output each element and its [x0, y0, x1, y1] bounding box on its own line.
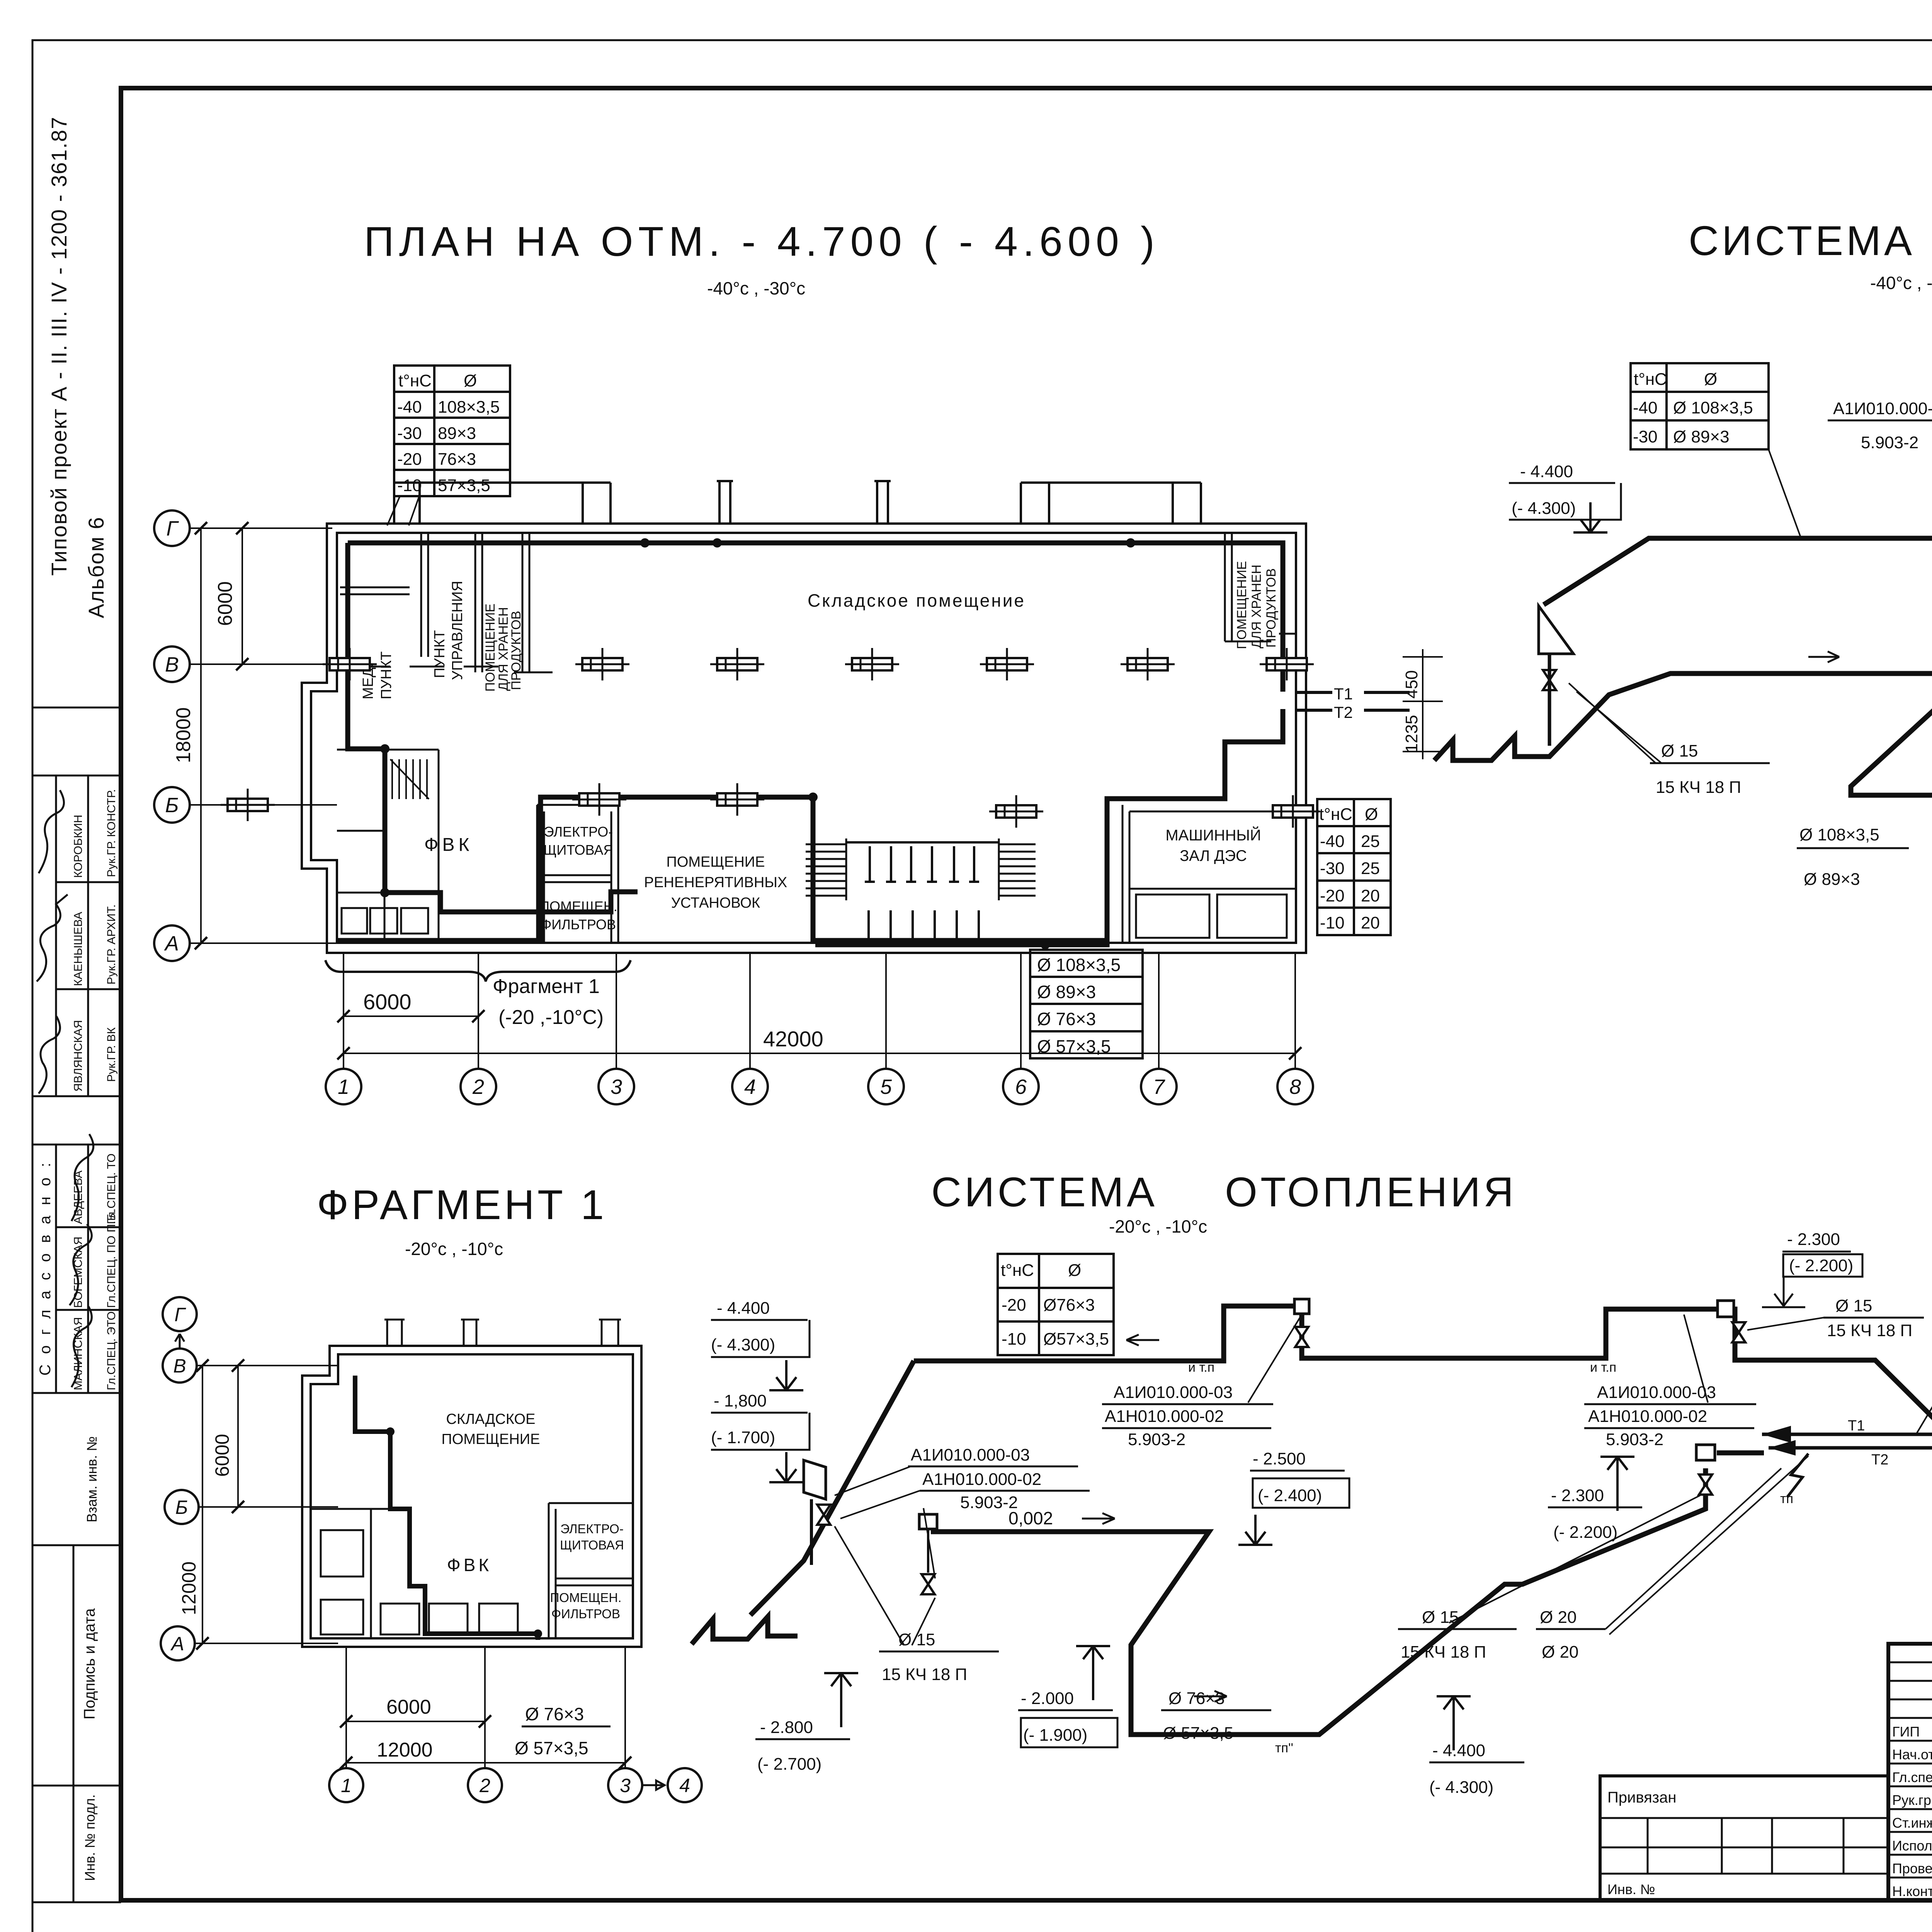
svg-text:КАЕНЫШЕВА: КАЕНЫШЕВА — [72, 912, 85, 986]
svg-text:12000: 12000 — [377, 1739, 433, 1761]
svg-text:(- 4.300): (- 4.300) — [1429, 1778, 1493, 1797]
svg-text:2: 2 — [472, 1075, 484, 1099]
svg-text:Г: Г — [166, 517, 179, 540]
stamp column grid — [32, 707, 121, 1902]
svg-text:Ø 57×3,5: Ø 57×3,5 — [1163, 1724, 1233, 1743]
svg-text:Т1: Т1 — [1334, 685, 1353, 703]
stair railing posts row2 — [864, 910, 984, 946]
svg-text:Ø 89×3: Ø 89×3 — [1037, 982, 1096, 1002]
svg-text:ЯВЛЯНСКАЯ: ЯВЛЯНСКАЯ — [72, 1020, 85, 1092]
svg-text:Гл.СПЕЦ. ЭТО: Гл.СПЕЦ. ЭТО — [105, 1311, 118, 1390]
break zigzag — [1787, 1454, 1808, 1497]
svg-text:5.903-2: 5.903-2 — [1861, 433, 1918, 452]
svg-text:Нач.отд.: Нач.отд. — [1892, 1747, 1932, 1762]
svg-text:450: 450 — [1402, 670, 1421, 699]
svg-text:-20°с , -10°с: -20°с , -10°с — [1109, 1216, 1207, 1236]
svg-text:5: 5 — [880, 1075, 892, 1099]
svg-text:Ø 15: Ø 15 — [898, 1630, 935, 1649]
svg-text:УПРАВЛЕНИЯ: УПРАВЛЕНИЯ — [449, 581, 466, 680]
svg-text:Инв. № подл.: Инв. № подл. — [82, 1794, 98, 1881]
svg-text:Ø 108×3,5: Ø 108×3,5 — [1037, 955, 1121, 975]
svg-text:15 КЧ 18 П: 15 КЧ 18 П — [882, 1665, 967, 1684]
svg-text:25: 25 — [1361, 832, 1380, 851]
TOP-PLAN — [154, 218, 1443, 1104]
svg-text:ПОМЕЩЕНИЕ: ПОМЕЩЕНИЕ — [442, 1431, 540, 1447]
stair railing posts row1 — [846, 842, 999, 882]
BOTTOM-SCHEMATIC — [692, 1168, 1932, 1797]
svg-text:-30: -30 — [1320, 859, 1345, 878]
svg-text:42000: 42000 — [763, 1027, 823, 1051]
privyazan box — [1600, 1776, 1888, 1900]
svg-text:4: 4 — [744, 1075, 756, 1099]
window marks above — [384, 1320, 621, 1346]
svg-text:ПОМЕЩЕНИЕ: ПОМЕЩЕНИЕ — [483, 604, 498, 692]
left extension lines and dims — [190, 528, 337, 943]
svg-text:Типовой проект А - II. III: Типовой проект А - II. III. IV - 1200 - … — [47, 116, 71, 576]
svg-text:А: А — [170, 1633, 184, 1655]
svg-text:и т.п: и т.п — [1590, 1360, 1616, 1375]
svg-text:Рук.ГР. КОНСТР.: Рук.ГР. КОНСТР. — [105, 789, 118, 877]
svg-text:2: 2 — [479, 1775, 490, 1796]
svg-text:Ø 15: Ø 15 — [1835, 1296, 1872, 1315]
svg-text:Ø 15: Ø 15 — [1661, 742, 1698, 760]
main pipe runs — [692, 1306, 1932, 1735]
svg-text:Складское помещение: Складское помещение — [808, 590, 1026, 611]
svg-text:Ø 76×3: Ø 76×3 — [525, 1704, 584, 1724]
svg-text:(- 2.200): (- 2.200) — [1553, 1523, 1617, 1542]
fragment bottom dims — [346, 1647, 625, 1768]
svg-text:1235: 1235 — [1402, 715, 1421, 753]
svg-text:Ø 108×3,5: Ø 108×3,5 — [1673, 398, 1753, 417]
svg-text:-20: -20 — [1002, 1296, 1026, 1315]
svg-text:18000: 18000 — [172, 707, 195, 763]
svg-text:А1И010.000-03: А1И010.000-03 — [1597, 1383, 1716, 1402]
svg-text:ДЛЯ ХРАНЕН: ДЛЯ ХРАНЕН — [1249, 565, 1264, 648]
interior partitions top band — [339, 533, 1296, 672]
svg-text:t°нС: t°нС — [1001, 1261, 1034, 1280]
table T2 right — [1317, 799, 1391, 935]
boxes on pipe — [1294, 1299, 1309, 1314]
bottom window rects left — [342, 908, 428, 934]
svg-text:А1Н010.000-02: А1Н010.000-02 — [1588, 1407, 1707, 1426]
main pipe upper run — [1434, 483, 1932, 827]
table T5 — [998, 1254, 1114, 1355]
LEFT-MARGIN-STAMP — [32, 116, 121, 1902]
valve left — [1543, 670, 1556, 690]
svg-text:8: 8 — [1289, 1075, 1301, 1099]
svg-text:А: А — [164, 932, 179, 955]
svg-text:25: 25 — [1361, 859, 1380, 878]
svg-text:СКЛАДСКОЕ: СКЛАДСКОЕ — [446, 1411, 536, 1427]
svg-text:-40: -40 — [397, 398, 422, 417]
signature squiggles — [37, 790, 94, 1387]
svg-text:ПУНКТ: ПУНКТ — [432, 630, 448, 678]
fragment heating pipe — [355, 1376, 538, 1640]
left axis circles — [154, 510, 190, 961]
svg-text:6000: 6000 — [214, 581, 236, 626]
svg-text:t°нС: t°нС — [1634, 370, 1667, 389]
svg-text:-40: -40 — [1633, 398, 1658, 417]
svg-text:(-20 ,-10°С): (-20 ,-10°С) — [498, 1006, 604, 1029]
svg-text:Привязан: Привязан — [1607, 1789, 1676, 1806]
svg-text:Ø: Ø — [1704, 370, 1717, 389]
svg-text:Г: Г — [174, 1304, 186, 1325]
bottom window rects right — [1136, 895, 1287, 938]
svg-text:Ø76×3: Ø76×3 — [1043, 1296, 1095, 1315]
fragment outer walls — [302, 1346, 641, 1647]
svg-text:- 2.800: - 2.800 — [760, 1718, 813, 1737]
svg-text:12000: 12000 — [178, 1561, 200, 1615]
svg-text:Альбом 6: Альбом 6 — [84, 516, 108, 618]
svg-text:5.903-2: 5.903-2 — [1128, 1430, 1185, 1449]
top right store room — [1224, 533, 1226, 641]
fragment room labels — [442, 1411, 624, 1621]
svg-text:КОРОБКИН: КОРОБКИН — [72, 815, 85, 878]
svg-text:-20: -20 — [397, 450, 422, 469]
left grid — [1888, 1644, 1932, 1900]
svg-text:(- 2.200): (- 2.200) — [1789, 1256, 1853, 1275]
svg-text:20: 20 — [1361, 913, 1380, 932]
TOP-SCHEMATIC — [1434, 217, 1932, 960]
svg-text:t°нС: t°нС — [1319, 805, 1352, 824]
small stair near left wall — [390, 759, 429, 799]
svg-text:ФРАГМЕНТ 1: ФРАГМЕНТ 1 — [317, 1181, 607, 1228]
elevation -4.400 left — [1512, 462, 1576, 518]
svg-text:- 4.400: - 4.400 — [717, 1299, 770, 1318]
svg-text:Взам. инв. №: Взам. инв. № — [84, 1436, 100, 1522]
svg-text:15 КЧ 18 П: 15 КЧ 18 П — [1401, 1643, 1486, 1662]
svg-text:Т2: Т2 — [1871, 1452, 1888, 1468]
svg-text:Ø 89×3: Ø 89×3 — [1804, 870, 1860, 889]
svg-text:-40°с , -30°с: -40°с , -30°с — [707, 278, 805, 298]
table T4 — [1631, 363, 1769, 449]
svg-text:57×3,5: 57×3,5 — [438, 476, 490, 495]
svg-text:А1Н010.000-02: А1Н010.000-02 — [922, 1470, 1041, 1489]
callout A1I010 top — [1833, 399, 1932, 452]
svg-text:Рук.ГР. АРХИТ.: Рук.ГР. АРХИТ. — [105, 905, 118, 985]
svg-text:3: 3 — [611, 1075, 622, 1099]
svg-text:(- 1.700): (- 1.700) — [711, 1428, 775, 1447]
svg-text:Ø 57×3,5: Ø 57×3,5 — [1037, 1036, 1111, 1056]
svg-text:-10: -10 — [1320, 913, 1345, 932]
svg-text:5.903-2: 5.903-2 — [1606, 1430, 1663, 1449]
valves — [817, 1505, 830, 1525]
svg-text:Ø 108×3,5: Ø 108×3,5 — [1799, 825, 1879, 844]
svg-text:(- 1.900): (- 1.900) — [1023, 1726, 1087, 1745]
svg-text:Исполн.: Исполн. — [1892, 1838, 1932, 1854]
table T1 leaders — [387, 496, 419, 526]
callout D15 lower left — [1656, 742, 1741, 797]
svg-text:Инв. №: Инв. № — [1607, 1881, 1655, 1897]
svg-text:(- 2.700): (- 2.700) — [757, 1755, 821, 1774]
svg-text:4: 4 — [679, 1775, 690, 1796]
svg-text:СИСТЕМА: СИСТЕМА — [931, 1168, 1158, 1215]
svg-text:15 КЧ 18 П: 15 КЧ 18 П — [1827, 1321, 1912, 1340]
table T3 diameters list — [1030, 950, 1143, 1058]
svg-text:ПЛАН НА ОТМ. - 4.700 ( -: ПЛАН НА ОТМ. - 4.700 ( - 4.600 ) — [364, 218, 1160, 265]
callout block2 middle — [1105, 1383, 1233, 1449]
svg-text:и т.п: и т.п — [1188, 1360, 1214, 1375]
svg-text:-30: -30 — [397, 424, 422, 443]
svg-text:-30: -30 — [1633, 427, 1658, 446]
svg-text:-40: -40 — [1320, 832, 1345, 851]
svg-text:ПОМЕЩЕНИЕ: ПОМЕЩЕНИЕ — [1235, 561, 1249, 649]
svg-text:6: 6 — [1015, 1075, 1027, 1099]
fragment brace — [325, 960, 631, 981]
svg-text:УСТАНОВОК: УСТАНОВОК — [671, 895, 760, 911]
machine hall — [1122, 805, 1124, 943]
svg-text:В: В — [165, 653, 179, 676]
svg-text:-40°с , -30°с: -40°с , -30°с — [1870, 273, 1932, 293]
svg-text:Ø: Ø — [464, 371, 477, 390]
callout block3 right — [1588, 1383, 1716, 1449]
svg-text:ФВК: ФВК — [424, 835, 473, 855]
svg-text:Ø 15: Ø 15 — [1422, 1608, 1459, 1627]
svg-text:Б: Б — [175, 1497, 188, 1518]
roles and names — [1892, 1724, 1932, 1899]
staircase treads right — [999, 838, 1036, 900]
pipe junction dots — [380, 538, 1135, 949]
svg-text:108×3,5: 108×3,5 — [438, 398, 500, 417]
callout block1 left — [911, 1446, 1041, 1512]
T1 T2 double lines — [1762, 1434, 1932, 1448]
svg-text:Т1: Т1 — [1848, 1418, 1865, 1434]
svg-text:Ø 57×3,5: Ø 57×3,5 — [515, 1738, 588, 1758]
svg-text:Ст.инж.: Ст.инж. — [1892, 1815, 1932, 1831]
svg-text:Ø57×3,5: Ø57×3,5 — [1043, 1330, 1109, 1349]
table T1 pipe diameters top-left — [394, 366, 510, 496]
svg-text:- 2.000: - 2.000 — [1021, 1689, 1074, 1708]
svg-text:тп: тп — [1780, 1492, 1793, 1506]
svg-text:ПРОДУКТОВ: ПРОДУКТОВ — [509, 611, 524, 690]
svg-text:- 1,800: - 1,800 — [714, 1391, 767, 1410]
svg-text:6000: 6000 — [363, 990, 412, 1014]
flag symbol left — [804, 1460, 826, 1499]
svg-text:В: В — [173, 1355, 186, 1377]
column symbols row V — [575, 648, 629, 680]
svg-text:20: 20 — [1361, 886, 1380, 905]
svg-text:ЭЛЕКТРО-: ЭЛЕКТРО- — [544, 824, 613, 840]
svg-text:Фрагмент 1: Фрагмент 1 — [493, 975, 600, 998]
svg-text:Б: Б — [165, 794, 179, 817]
svg-text:ЩИТОВАЯ: ЩИТОВАЯ — [544, 842, 614, 858]
svg-text:ЗАЛ ДЭС: ЗАЛ ДЭС — [1180, 847, 1247, 864]
svg-text:1: 1 — [341, 1775, 352, 1796]
column symbols row B — [572, 783, 626, 816]
svg-text:ПОМЕЩЕНИЕ: ПОМЕЩЕНИЕ — [667, 854, 765, 870]
svg-text:89×3: 89×3 — [438, 424, 476, 443]
fragment bottom circles — [329, 1768, 702, 1802]
rotated dims 450 1235 — [1403, 649, 1443, 759]
svg-text:МАЛИНСКАЯ: МАЛИНСКАЯ — [72, 1317, 85, 1390]
svg-text:А1И010.000-03: А1И010.000-03 — [1114, 1383, 1233, 1402]
top wall upper structures — [394, 481, 1201, 524]
svg-text:6000: 6000 — [211, 1434, 233, 1477]
callout diameters lower — [1799, 825, 1879, 889]
svg-text:76×3: 76×3 — [438, 450, 476, 469]
svg-text:Гл.СПЕЦ. ПО П.Б.: Гл.СПЕЦ. ПО П.Б. — [105, 1210, 118, 1308]
svg-text:ПУНКТ: ПУНКТ — [378, 651, 395, 699]
svg-text:С о г л а с о в а н о :: С о г л а с о в а н о : — [37, 1160, 54, 1376]
staircase treads left — [806, 838, 846, 900]
svg-text:-10: -10 — [397, 476, 422, 495]
arrow on lower run — [1808, 651, 1839, 662]
svg-text:ОТОПЛЕНИЯ: ОТОПЛЕНИЯ — [1225, 1168, 1517, 1215]
fragment left dims — [195, 1366, 338, 1643]
rotated header: Типовой проект — [47, 116, 108, 618]
svg-text:t°нС: t°нС — [398, 371, 432, 390]
svg-text:- 2.300: - 2.300 — [1551, 1486, 1604, 1505]
left cells near FVK — [438, 750, 440, 943]
svg-text:1: 1 — [338, 1075, 349, 1099]
svg-text:Ø: Ø — [1068, 1261, 1081, 1280]
svg-text:- 2.500: - 2.500 — [1253, 1449, 1306, 1468]
svg-text:(- 4.300): (- 4.300) — [1512, 499, 1576, 518]
svg-text:-20°с , -10°с: -20°с , -10°с — [405, 1239, 503, 1259]
heating pipe top run — [338, 543, 1283, 945]
svg-text:(- 4.300): (- 4.300) — [711, 1335, 775, 1354]
svg-text:Провер.: Провер. — [1892, 1861, 1932, 1876]
arrow lower run — [1194, 1691, 1227, 1702]
fragment partitions — [311, 1503, 633, 1638]
svg-text:ПРОДУКТОВ: ПРОДУКТОВ — [1264, 568, 1279, 648]
svg-text:СИСТЕМА: СИСТЕМА — [1689, 217, 1915, 264]
svg-text:5.903-2: 5.903-2 — [960, 1493, 1018, 1512]
svg-text:ФИЛЬТРОВ: ФИЛЬТРОВ — [551, 1607, 620, 1621]
bottom extension lines and dims — [344, 953, 1295, 1069]
svg-text:РЕНЕНЕРЯТИВНЫХ: РЕНЕНЕРЯТИВНЫХ — [644, 874, 787, 891]
svg-text:(- 2.400): (- 2.400) — [1258, 1486, 1322, 1505]
svg-text:15 КЧ 18 П: 15 КЧ 18 П — [1656, 778, 1741, 797]
svg-text:- 2.300: - 2.300 — [1787, 1230, 1840, 1249]
svg-text:Н.контр.: Н.контр. — [1892, 1883, 1932, 1899]
svg-text:Подпись и дата: Подпись и дата — [81, 1608, 98, 1719]
arrow mid top run — [1126, 1335, 1159, 1345]
svg-text:3: 3 — [620, 1775, 631, 1796]
svg-text:ПОМЕЩЕН.: ПОМЕЩЕН. — [539, 898, 617, 914]
svg-text:6000: 6000 — [386, 1696, 431, 1718]
svg-text:Ø: Ø — [1365, 805, 1378, 824]
svg-text:тп'': тп'' — [1275, 1741, 1293, 1755]
svg-text:-20: -20 — [1320, 886, 1345, 905]
svg-text:А1И010.000-03: А1И010.000-03 — [1833, 399, 1932, 418]
svg-text:- 4.400: - 4.400 — [1432, 1741, 1485, 1760]
main stamp outline — [1888, 1644, 1932, 1900]
FRAGMENT-PLAN — [161, 1181, 702, 1802]
svg-text:Ø 20: Ø 20 — [1542, 1643, 1578, 1662]
svg-text:Гл.спец.: Гл.спец. — [1892, 1769, 1932, 1785]
svg-text:Рук.гр: Рук.гр — [1892, 1792, 1931, 1808]
svg-text:Ø 76×3: Ø 76×3 — [1037, 1009, 1096, 1029]
fragment axis circles left — [161, 1297, 199, 1660]
svg-text:Ø 89×3: Ø 89×3 — [1673, 427, 1730, 446]
svg-text:МАШИННЫЙ: МАШИННЫЙ — [1165, 826, 1261, 844]
rotated names rows — [72, 789, 118, 1390]
svg-text:ЭЛЕКТРО-: ЭЛЕКТРО- — [560, 1522, 624, 1536]
svg-text:ФИЛЬТРОВ: ФИЛЬТРОВ — [541, 917, 616, 932]
interior partitions bottom band — [337, 750, 1296, 943]
svg-text:ФВК: ФВК — [447, 1555, 492, 1575]
svg-text:А1И010.000-03: А1И010.000-03 — [911, 1446, 1030, 1464]
svg-text:ЩИТОВАЯ: ЩИТОВАЯ — [560, 1538, 624, 1552]
svg-text:-10: -10 — [1002, 1330, 1026, 1349]
flag symbol — [1539, 606, 1573, 654]
bottom axis circles — [326, 1069, 1313, 1104]
svg-text:А1Н010.000-02: А1Н010.000-02 — [1105, 1407, 1224, 1426]
outer walls — [302, 524, 1306, 953]
svg-text:Ø 76×3: Ø 76×3 — [1168, 1689, 1225, 1708]
svg-text:Т2: Т2 — [1334, 703, 1353, 721]
T1 T2 exits — [1296, 692, 1410, 710]
svg-text:7: 7 — [1153, 1075, 1165, 1099]
svg-text:ГИП: ГИП — [1892, 1724, 1920, 1740]
svg-text:Ø 20: Ø 20 — [1540, 1608, 1577, 1627]
TITLE-BLOCK — [1600, 1644, 1932, 1932]
svg-text:Рук.ГР. ВК: Рук.ГР. ВК — [105, 1027, 118, 1082]
svg-text:- 4.400: - 4.400 — [1520, 462, 1573, 481]
svg-text:ПОМЕЩЕН.: ПОМЕЩЕН. — [550, 1590, 622, 1605]
